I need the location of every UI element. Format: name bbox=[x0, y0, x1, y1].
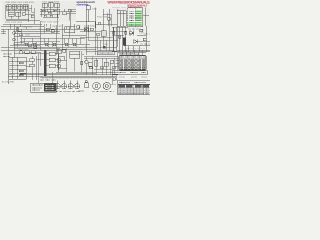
delay line DL1 bbox=[101, 31, 106, 37]
resistor R3 bbox=[16, 28, 18, 31]
trimmer VR2 bbox=[62, 81, 67, 89]
wire mid verticals bbox=[45, 24, 70, 38]
label right of speakers bbox=[111, 84, 116, 86]
resistor R53 bbox=[31, 51, 35, 54]
table grid bbox=[118, 85, 151, 95]
wire verticals center bbox=[40, 8, 117, 56]
IF transformer T3 bbox=[18, 5, 23, 10]
box audio amp U6 bbox=[70, 51, 80, 58]
header dark cells bbox=[118, 85, 125, 87]
gray stipple under red bbox=[112, 6, 126, 8]
resistor R75 bbox=[19, 62, 23, 64]
IF transformer T1 bbox=[7, 5, 12, 10]
connector color table P1 bbox=[128, 8, 143, 27]
shielded choke dark bbox=[123, 38, 125, 46]
wire left edge stubs bbox=[1, 5, 6, 34]
wire top-left bus bbox=[1, 21, 86, 36]
box video block U2 bbox=[65, 27, 75, 33]
box regulator U5 bbox=[57, 49, 61, 54]
connector table header bbox=[129, 8, 143, 10]
label above keypad bbox=[119, 52, 134, 54]
resistor R60 bbox=[63, 50, 66, 53]
wire right edge top bbox=[143, 8, 150, 51]
node A junction dots bbox=[13, 28, 86, 47]
resistor R31 bbox=[51, 30, 54, 33]
wire audio right bbox=[47, 49, 58, 70]
paper background bbox=[0, 0, 150, 95]
wire left column extra bbox=[14, 27, 24, 48]
wire left vertical bbox=[9, 24, 15, 84]
ceramic filter X1 bbox=[63, 9, 67, 15]
resistor R55 bbox=[49, 52, 55, 56]
wire if strip tangle bbox=[40, 7, 76, 24]
keypad cell dots bbox=[121, 61, 144, 68]
capacitor C63 bbox=[88, 62, 92, 66]
capacitor C15 bbox=[44, 15, 46, 17]
transistor Q15 bbox=[85, 60, 88, 63]
IF can T5 bbox=[43, 3, 48, 8]
ribbon cable wires bbox=[100, 40, 106, 51]
IF can T7 bbox=[55, 3, 60, 8]
resistor R54 bbox=[30, 59, 35, 62]
legend specks bbox=[119, 76, 147, 78]
resistor R57 bbox=[49, 64, 55, 68]
power strip label box bbox=[97, 51, 114, 55]
wire below strip bbox=[113, 74, 117, 84]
trimmer VR1 bbox=[55, 81, 60, 89]
capacitor C35 bbox=[45, 43, 48, 46]
dark cable bundle bbox=[44, 50, 47, 76]
resistor R41 bbox=[113, 31, 115, 34]
IF can T6 bbox=[49, 3, 54, 8]
wire psu verticals bbox=[94, 58, 114, 75]
wire tuner connects bbox=[6, 5, 31, 23]
scan noise bbox=[0, 0, 1, 1]
diode D1 bbox=[111, 60, 114, 63]
resistor R51 bbox=[25, 51, 30, 54]
resistor R42 bbox=[119, 35, 121, 38]
scan haze overlays bbox=[2, 1, 76, 22]
diode D11 bbox=[130, 31, 134, 36]
wire tuner right drop bbox=[29, 5, 35, 24]
coil L1 bbox=[68, 9, 71, 12]
capacitor C64 bbox=[95, 60, 98, 66]
wire center low verticals bbox=[59, 48, 93, 75]
capacitor C1 bbox=[22, 13, 25, 16]
wire double bus bbox=[20, 72, 118, 77]
resistor R63 bbox=[89, 67, 93, 69]
wire lower-left lines bbox=[10, 46, 60, 49]
wires into table bbox=[39, 72, 53, 83]
wire under power strip bbox=[84, 57, 118, 59]
transistor Q22 bbox=[97, 33, 100, 36]
label specks right edge bbox=[126, 34, 150, 49]
capacitor C33 bbox=[65, 43, 68, 46]
capacitor C62b bbox=[57, 65, 60, 68]
left bottom box frame bbox=[9, 57, 27, 79]
red label above table bbox=[128, 6, 141, 8]
box internal specks bbox=[10, 59, 16, 74]
resistor R56 bbox=[49, 58, 55, 62]
resistor R23 bbox=[108, 18, 111, 21]
wire agc line bbox=[76, 13, 117, 28]
capacitor C36 bbox=[53, 43, 56, 46]
capacitor C34 bbox=[73, 43, 76, 46]
wire right mid mesh bbox=[80, 25, 118, 52]
resistor R24 bbox=[90, 28, 93, 31]
resistor R44 bbox=[140, 29, 143, 32]
polarized cap C40 bbox=[103, 46, 106, 49]
label specks right yoke bbox=[128, 29, 150, 44]
label specks under audio bbox=[40, 79, 56, 81]
resistor R30 bbox=[46, 28, 49, 31]
component labels row above bottom bus bbox=[42, 78, 112, 80]
resistor R43 bbox=[125, 31, 127, 34]
resistor R12 bbox=[48, 12, 51, 14]
speaker SP2 bbox=[103, 83, 111, 90]
speaker SP1 bbox=[93, 83, 101, 90]
capacitor C4 bbox=[20, 34, 22, 36]
voltage table frame bbox=[118, 85, 151, 95]
resistor R4 bbox=[28, 44, 31, 46]
keypad top wires bbox=[116, 50, 143, 71]
capacitor C51 bbox=[30, 64, 35, 67]
tuner box U1 bbox=[8, 12, 14, 16]
capacitor C62 bbox=[57, 59, 60, 63]
label left mid bbox=[3, 54, 12, 57]
capacitor C66 bbox=[101, 66, 104, 69]
trimmer VR4 bbox=[75, 81, 80, 89]
resistor R11 bbox=[42, 10, 45, 12]
wire bottom bus bbox=[8, 49, 150, 76]
table cell text bbox=[119, 89, 150, 94]
capacitor C67 bbox=[113, 66, 116, 69]
resistor R58 bbox=[59, 57, 65, 61]
coil L21 bbox=[86, 6, 90, 22]
capacitor C18 bbox=[77, 26, 80, 29]
capacitor C16 bbox=[50, 15, 52, 17]
electrolytic cap C80 bbox=[85, 80, 89, 87]
resistor R76 bbox=[19, 70, 23, 72]
label 12V mark bbox=[78, 90, 84, 92]
resistor R45 bbox=[143, 38, 146, 41]
IF transformer T2 bbox=[12, 5, 17, 10]
table title strip bbox=[118, 80, 151, 84]
labels under speakers bbox=[92, 91, 114, 93]
transistor Q13 bbox=[113, 78, 116, 81]
transistor Q21 bbox=[98, 22, 101, 25]
IF transformer T4 bbox=[23, 5, 28, 10]
labels under trimmers bbox=[55, 90, 80, 92]
capacitor C3 bbox=[31, 15, 34, 17]
connector J1 bbox=[117, 11, 126, 27]
part number strip box bbox=[112, 71, 148, 75]
resistor R62 bbox=[81, 61, 83, 65]
wire center low extra bbox=[59, 54, 85, 69]
transistor Q11 bbox=[19, 50, 23, 54]
resistor R13 bbox=[54, 10, 57, 12]
coil L3 bbox=[16, 12, 21, 16]
wire right lower bbox=[112, 35, 150, 52]
box chroma U3 bbox=[84, 28, 89, 32]
resistor R5 bbox=[34, 46, 37, 48]
capacitor C32 bbox=[33, 43, 36, 46]
wire center mid mesh bbox=[20, 38, 85, 47]
wire right mid horizontals bbox=[110, 28, 150, 42]
transistor Q2 bbox=[13, 38, 16, 41]
trimmer VR3 bbox=[68, 81, 73, 89]
transistor Q1 bbox=[13, 32, 16, 35]
capacitor C65 bbox=[104, 62, 108, 66]
keypad matrix U7 bbox=[119, 56, 146, 71]
power strip text bbox=[99, 52, 113, 54]
part number text bbox=[118, 72, 146, 74]
resistor R74 bbox=[19, 74, 23, 76]
wire pre-connector bbox=[103, 13, 112, 26]
wire mid buses bbox=[1, 37, 117, 52]
capacitor C31 bbox=[25, 43, 28, 46]
wire audio cluster bbox=[14, 52, 44, 80]
bottom mini table bbox=[31, 83, 57, 92]
vertical harness right bbox=[114, 27, 126, 52]
wire right of tangle bbox=[66, 9, 76, 21]
diode D12 bbox=[134, 40, 138, 44]
